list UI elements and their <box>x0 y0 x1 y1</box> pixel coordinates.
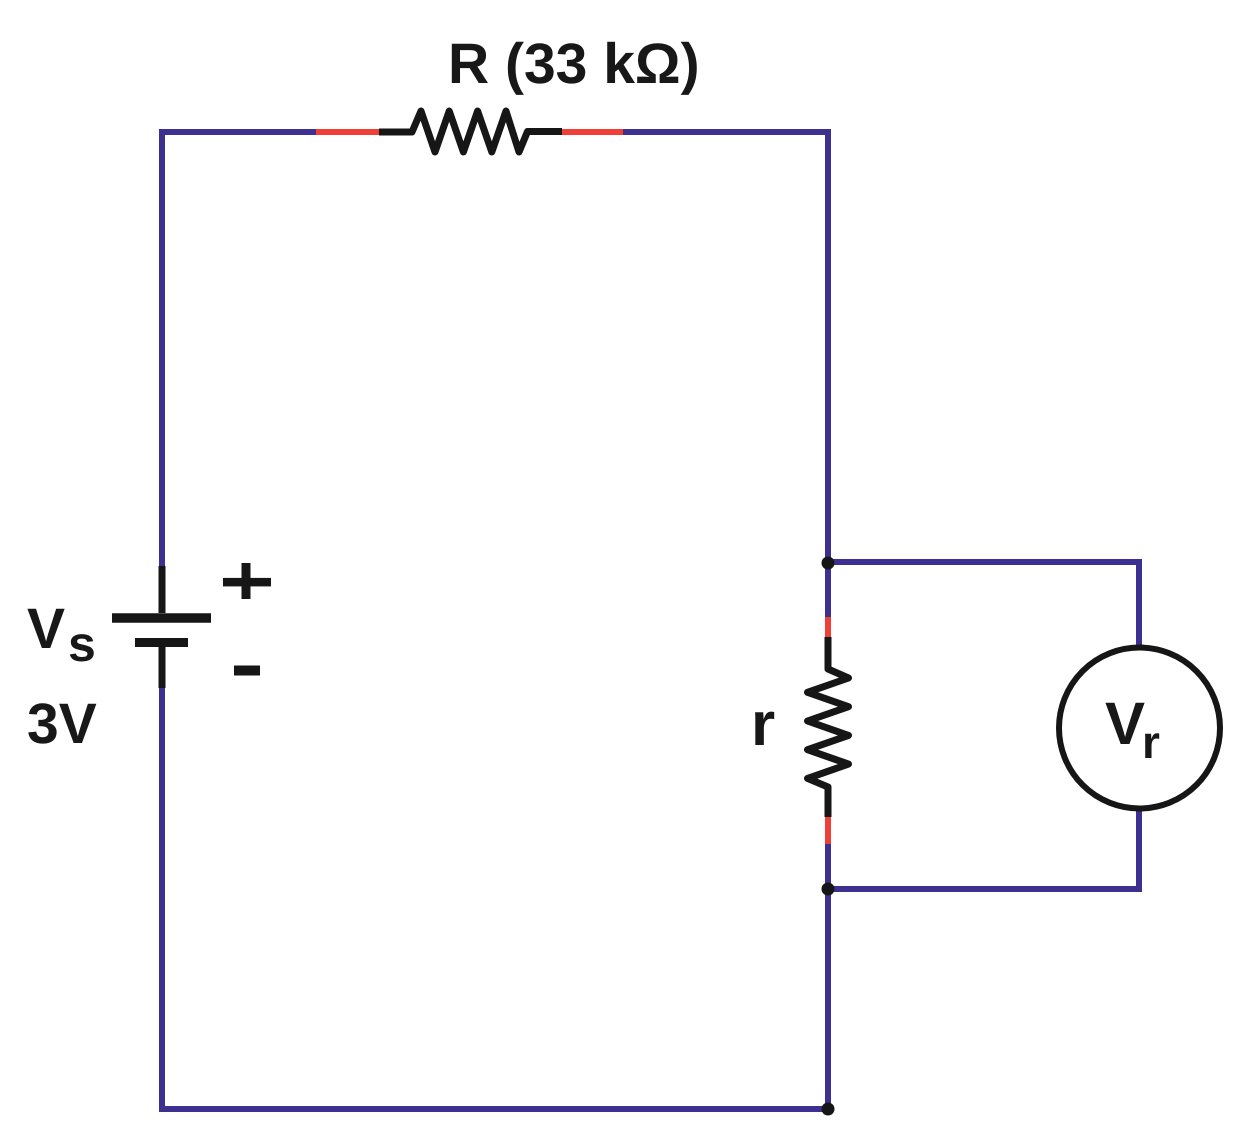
svg-text:V: V <box>1105 690 1145 757</box>
svg-text:r: r <box>751 690 775 759</box>
svg-text:r: r <box>1142 716 1160 768</box>
svg-text:s: s <box>68 616 96 672</box>
svg-text:V: V <box>27 597 65 661</box>
svg-text:R (33 kΩ): R (33 kΩ) <box>448 32 700 96</box>
svg-text:3V: 3V <box>27 692 97 756</box>
